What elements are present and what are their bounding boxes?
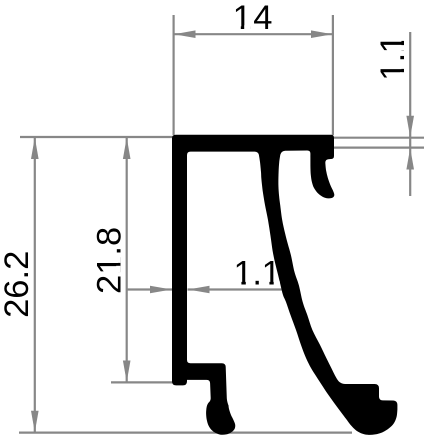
dimension line 21.8 xyxy=(126,138,128,383)
svg-text:26.2: 26.2 xyxy=(0,251,36,318)
dimension line 1.1 middle right part xyxy=(188,288,294,290)
arrow 14 left xyxy=(174,30,196,38)
svg-text:14: 14 xyxy=(233,0,274,37)
extension line bottom datum xyxy=(19,432,352,434)
dimension line 1.1 right xyxy=(409,32,411,196)
extension line 14 left xyxy=(173,15,175,135)
arrow 21.8 top xyxy=(123,137,131,159)
svg-text:1.1: 1.1 xyxy=(233,255,280,293)
extension line top datum xyxy=(20,136,176,138)
dimension line 1.1 middle left part xyxy=(127,288,172,290)
arrow 1.1 middle pointing left xyxy=(188,286,210,294)
arrow 14 right xyxy=(311,30,333,38)
svg-text:21.8: 21.8 xyxy=(91,227,129,294)
dimension line 26.2 xyxy=(34,137,36,433)
arrow 21.8 bottom xyxy=(123,361,131,383)
extension line 14 right xyxy=(332,15,334,135)
extension line 1.1 right upper xyxy=(334,137,424,139)
profile cross-section (black aluminium extrusion) xyxy=(172,135,397,435)
arrow 26.2 top xyxy=(31,137,39,159)
arrow 1.1 right lower xyxy=(406,148,414,170)
white covers to remove Liberation '1' foot serifs (target uses footless 1) xyxy=(116,25,405,285)
extension line 21.8 bottom xyxy=(111,381,173,383)
arrow 1.1 right upper xyxy=(406,116,414,138)
extension line 1.1 right lower xyxy=(334,147,424,149)
arrow 26.2 bottom xyxy=(31,411,39,433)
svg-text:1.1: 1.1 xyxy=(374,35,412,81)
arrow 1.1 middle pointing right xyxy=(150,286,172,294)
dimension line 14 xyxy=(174,33,333,35)
